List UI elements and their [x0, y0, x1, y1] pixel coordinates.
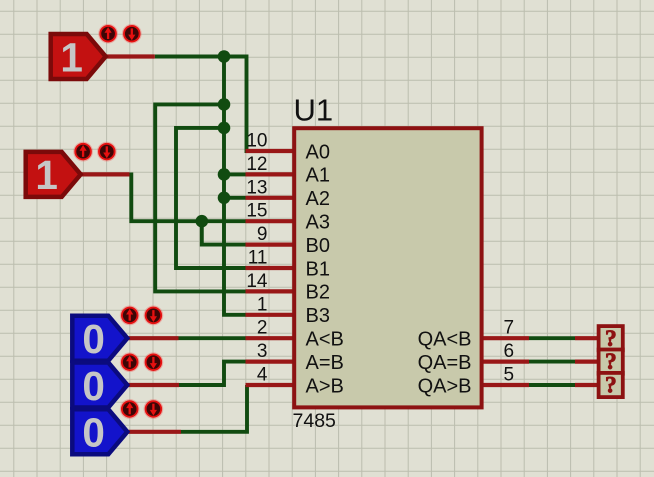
svg-text:10: 10 [246, 131, 267, 152]
wire branch 1b to B0 pin 9 [202, 221, 246, 244]
toggle button down arrow for 1b [98, 142, 117, 161]
svg-text:9: 9 [257, 224, 268, 245]
svg-text:QA>B: QA>B [418, 375, 472, 397]
svg-text:1: 1 [60, 34, 83, 80]
svg-text:12: 12 [246, 154, 267, 175]
wire net QA<B to probe 1 [529, 336, 575, 340]
pin 14 stub (left) [246, 289, 293, 293]
toggle button up arrow for 0a [120, 306, 139, 325]
svg-text:B0: B0 [306, 235, 330, 257]
pin 10 stub (left) [246, 149, 293, 153]
wire branch 1a to B1 pin 11 [176, 128, 246, 268]
svg-text:QA<B: QA<B [418, 329, 472, 351]
pin 11 stub (left) [246, 266, 293, 270]
wire net logic state 1b to A3 pin 15 [130, 174, 246, 221]
junction main vertical / A1 pin wire [218, 168, 231, 181]
svg-text:B3: B3 [306, 305, 330, 327]
logic state 1b (value 1) [26, 152, 81, 197]
logic probe 2 (?) [599, 349, 623, 375]
svg-text:0: 0 [82, 410, 105, 456]
toggle button down arrow for 0b [144, 353, 163, 372]
svg-text:A>B: A>B [306, 375, 344, 397]
toggle button up arrow for 1a [99, 24, 118, 43]
logic state 0a (value 0) [72, 316, 127, 361]
svg-text:5: 5 [504, 365, 515, 386]
probe 2 pin stub [575, 360, 600, 364]
pin 1 stub (left) [246, 313, 293, 317]
wire branch 1a to A2 pin 13 [224, 196, 246, 200]
toggle button up arrow for 0c [120, 400, 139, 419]
pin 5 stub (right) [483, 383, 530, 387]
svg-text:0: 0 [82, 316, 105, 362]
svg-text:A3: A3 [306, 212, 330, 234]
svg-text:B2: B2 [306, 282, 330, 304]
svg-text:A<B: A<B [306, 329, 344, 351]
logic state 1a (value 1) [51, 34, 106, 79]
junction 1b wire / B0 branch [196, 215, 209, 228]
toggle button up arrow for 1b [74, 142, 93, 161]
toggle button down arrow for 0c [144, 400, 163, 419]
svg-text:4: 4 [257, 365, 268, 386]
svg-text:15: 15 [246, 201, 267, 222]
svg-text:7485: 7485 [293, 410, 337, 432]
pin 2 stub (left) [246, 336, 293, 340]
logic state 1a pin stub [107, 54, 155, 58]
svg-text:0: 0 [82, 363, 105, 409]
probe 3 pin stub [575, 383, 600, 387]
pin 15 stub (left) [246, 219, 293, 223]
IC U1 7485 body [294, 128, 481, 407]
logic probe 3 (?) [599, 373, 623, 399]
logic state 1b pin stub [81, 172, 130, 176]
svg-text:A1: A1 [306, 165, 330, 187]
probe 1 pin stub [575, 336, 600, 340]
wire net main vertical 1a to B3 pin 1 [224, 57, 246, 315]
junction main vertical / A2 pin wire [218, 192, 231, 205]
svg-text:11: 11 [248, 248, 268, 269]
svg-text:U1: U1 [294, 93, 334, 128]
logic state 0b pin stub [127, 383, 179, 387]
pin 9 stub (left) [246, 243, 293, 247]
wire net U1:A0 from logic state 1a [155, 57, 248, 152]
svg-text:A=B: A=B [306, 352, 344, 374]
wire net logic state 0a to pin 2 [179, 336, 246, 340]
junction 1a wire / main vertical [218, 50, 231, 63]
wire net QA>B to probe 3 [529, 383, 575, 387]
pin 6 stub (right) [483, 360, 530, 364]
pin 7 stub (right) [483, 336, 530, 340]
svg-text:6: 6 [504, 341, 515, 362]
svg-text:A0: A0 [306, 141, 330, 163]
junction main vertical / B1 branch [218, 122, 231, 135]
toggle button up arrow for 0b [120, 353, 139, 372]
logic state 0a pin stub [127, 336, 178, 340]
svg-text:1: 1 [35, 152, 58, 198]
pin 13 stub (left) [246, 196, 293, 200]
svg-text:13: 13 [246, 177, 267, 198]
wire net QA=B to probe 2 [529, 360, 575, 364]
svg-text:B1: B1 [306, 258, 330, 280]
svg-text:3: 3 [257, 341, 268, 362]
logic state 0c pin stub [127, 430, 181, 434]
logic probe 1 (?) [599, 326, 623, 352]
pin 12 stub (left) [246, 172, 293, 176]
svg-text:QA=B: QA=B [418, 352, 472, 374]
wire net logic state 0c to pin 4 [181, 385, 247, 432]
wire net logic state 0b to pin 3 [179, 362, 246, 385]
toggle button down arrow for 0a [144, 306, 163, 325]
wire branch 1a to B2 pin 14 [155, 104, 246, 291]
logic state 0b (value 0) [72, 363, 127, 408]
svg-text:?: ? [605, 373, 617, 399]
pin 3 stub (left) [246, 360, 293, 364]
svg-text:A2: A2 [306, 188, 330, 210]
toggle button down arrow for 1a [123, 24, 142, 43]
svg-text:2: 2 [257, 318, 268, 339]
junction main vertical / B2 branch [218, 98, 231, 111]
svg-text:1: 1 [257, 294, 268, 315]
logic state 0c (value 0) [72, 409, 127, 454]
svg-text:7: 7 [504, 318, 515, 339]
wire branch 1a to A1 pin 12 [224, 172, 246, 176]
pin 4 stub (left) [246, 383, 293, 387]
svg-text:14: 14 [246, 271, 268, 292]
